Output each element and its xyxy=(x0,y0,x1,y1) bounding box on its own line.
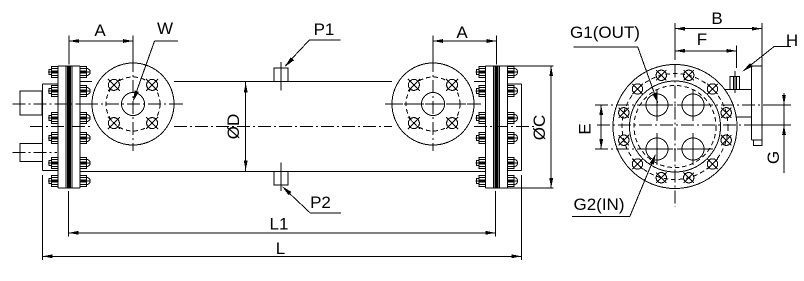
leader P2 arrow xyxy=(283,187,311,213)
svg-text:H: H xyxy=(786,31,798,50)
left flange pair plates xyxy=(58,65,80,67)
right bonnet end cover xyxy=(521,84,523,171)
svg-text:W: W xyxy=(157,19,173,38)
dimension E xyxy=(600,105,602,149)
left flange bolts xyxy=(52,67,59,78)
nozzle P1 (top) xyxy=(274,68,288,82)
svg-text:ØD: ØD xyxy=(224,114,243,140)
dimension A right extension lines xyxy=(432,36,434,60)
left tube sheet (thick) xyxy=(68,66,71,188)
right flange pair plates xyxy=(485,65,507,67)
side oil pipe (end view) xyxy=(725,88,752,90)
dimension L extension lines xyxy=(41,175,43,260)
right flange bolts xyxy=(479,67,486,78)
wire stub lower centerline y=152.3 xyxy=(13,151,57,153)
wire end view horizontal centerline xyxy=(597,124,791,126)
wire main horizontal centerline of side view xyxy=(30,126,92,128)
dimension A right xyxy=(433,40,497,42)
leader H arrow xyxy=(743,46,774,71)
end cover outer circle xyxy=(613,65,737,189)
oil flange (face view, right) xyxy=(392,63,474,145)
wire oil/stub upper centerline y=104 xyxy=(13,103,183,105)
end cover disc background xyxy=(613,65,737,189)
end cover hidden circle (dashed) xyxy=(634,86,716,168)
svg-text:A: A xyxy=(456,23,468,42)
dimension A left xyxy=(69,40,133,42)
wire W flange vertical centerline xyxy=(132,59,134,151)
svg-text:L: L xyxy=(276,239,285,258)
oil flange W (face view, left) xyxy=(92,63,174,145)
nozzle P2 (bottom) xyxy=(274,172,288,186)
dimension ØC extension lines xyxy=(508,65,554,67)
side oil flange (edge view) xyxy=(752,65,762,67)
wire boss centerline xyxy=(734,71,736,93)
dimension G extension solid segments xyxy=(765,104,791,106)
shell tube body top line xyxy=(80,81,92,83)
vent boss H xyxy=(730,76,739,89)
dimension A left extension lines xyxy=(68,36,70,65)
svg-text:A: A xyxy=(94,21,106,40)
svg-text:B: B xyxy=(711,9,722,28)
wire right oil flange vertical centerline xyxy=(432,59,434,151)
svg-text:L1: L1 xyxy=(270,215,289,234)
leader G2 arrow xyxy=(630,155,655,216)
wire right oil flange horizontal centerline xyxy=(388,103,478,105)
4 water pass holes xyxy=(646,94,668,116)
dimension G xyxy=(783,93,785,173)
wire hole row centerline lower y=149 xyxy=(595,148,713,150)
leader W arrow xyxy=(134,41,155,100)
dimension L1 xyxy=(69,232,496,234)
dimension B extension line xyxy=(674,23,676,60)
wire end view vertical centerline xyxy=(674,65,676,208)
wire P1 nozzle centerline xyxy=(280,62,282,91)
dimension L xyxy=(42,255,521,257)
dimension L1 extension lines xyxy=(68,191,70,237)
dimension F extension line xyxy=(735,45,737,68)
end cover inner face circle xyxy=(630,81,721,172)
left water stub upper xyxy=(20,91,42,115)
svg-text:G1(OUT): G1(OUT) xyxy=(570,23,640,42)
svg-text:P1: P1 xyxy=(314,20,335,39)
svg-text:G2(IN): G2(IN) xyxy=(574,195,625,214)
svg-text:G: G xyxy=(764,151,783,164)
right tube sheet (thick) xyxy=(495,66,498,188)
shell tube body bottom line xyxy=(80,171,486,173)
svg-text:P2: P2 xyxy=(310,193,331,212)
left bonnet end cover xyxy=(41,84,43,171)
wire P2 nozzle centerline xyxy=(280,163,282,192)
dimension F xyxy=(675,50,736,52)
leader P1 arrow xyxy=(286,40,310,65)
dimension ØC xyxy=(550,66,552,188)
dimension ØD xyxy=(245,82,247,171)
svg-text:E: E xyxy=(576,123,595,134)
dimension B xyxy=(675,28,762,30)
svg-text:F: F xyxy=(697,30,707,49)
left water stub lower xyxy=(20,144,42,162)
leader G1 arrow xyxy=(638,47,658,102)
wire hole row centerline upper y=105 xyxy=(595,104,791,106)
bolt circle (dashed) xyxy=(622,74,728,180)
12 flange bolt holes xyxy=(684,70,694,80)
svg-text:ØC: ØC xyxy=(530,115,549,141)
